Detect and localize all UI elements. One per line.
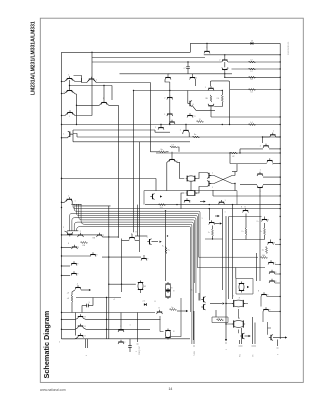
wire line y=62 right part	[228, 61, 280, 63]
wire Q15 out	[192, 105, 215, 110]
transistor Q29 rcol	[257, 187, 262, 189]
wire Q10 left lead	[77, 103, 103, 106]
wire pin stub 6	[277, 340, 279, 347]
wire line y=69	[232, 68, 281, 70]
resistor R12	[249, 61, 256, 63]
transistor Q23 sw lower	[208, 181, 210, 186]
wire Q8 out long	[96, 82, 150, 84]
wire line y=257.1	[102, 256, 141, 258]
wire vertical x=226	[225, 216, 227, 341]
svg-text:6: 6	[278, 354, 280, 355]
transistor Q56 pair	[165, 330, 170, 332]
transistor Q1	[204, 50, 209, 52]
wire Q17b base down	[210, 108, 212, 117]
resistor R1+ vertical	[212, 229, 214, 236]
svg-text:FREQ OUT: FREQ OUT	[139, 345, 141, 355]
wire bus line 1 long	[73, 204, 280, 208]
wire Q11 collector	[72, 113, 75, 116]
transistor Q28 rcol	[257, 173, 262, 175]
pin tick marks	[137, 343, 279, 348]
node rail dots batch	[61, 178, 62, 179]
wire Q18 base link	[70, 133, 73, 135]
wire sw cross	[209, 176, 235, 184]
transistor Q45	[268, 242, 273, 244]
transistor Q54 pair	[165, 289, 170, 291]
resistor R24	[221, 95, 223, 102]
transistor Q50	[78, 325, 83, 327]
wire Q10 right lead	[106, 103, 119, 106]
wire Q48t arrow out	[81, 289, 89, 291]
resistor R18	[249, 76, 256, 78]
wire line y=62 left part	[92, 61, 222, 63]
transistor OV1 core pair	[186, 176, 188, 182]
svg-text:4: 4	[86, 355, 88, 356]
resistor R1.4	[249, 124, 256, 126]
wire bus line 7	[74, 222, 193, 340]
svg-text:LM231A/LM231/LM331A/LM331: LM231A/LM231/LM331A/LM331	[30, 21, 36, 95]
wire left supply rail	[61, 52, 63, 339]
resistor R2+c box	[212, 317, 228, 323]
svg-text:THRS: THRS	[194, 350, 196, 356]
capacitor C2	[187, 62, 189, 66]
transistor Q11	[67, 112, 72, 114]
wire Q29 leads	[240, 183, 257, 185]
wire res row link	[233, 239, 265, 241]
wire line y=117 right	[211, 116, 280, 118]
transistor Q53	[118, 341, 123, 343]
transistor Q19b	[158, 127, 163, 129]
wire vertical x=133.5	[133, 91, 135, 233]
wire line y=284.2	[109, 283, 136, 285]
wire bus top line y=205.9	[75, 205, 111, 207]
wire bias line y=54.8	[204, 54, 280, 56]
transistor Qcomb top	[67, 198, 72, 200]
wire base bus y=85.5	[69, 80, 71, 89]
resistor R8b	[159, 151, 166, 153]
wire base vertical x=75.5	[75, 313, 77, 336]
wire pin stub pair left	[85, 339, 87, 348]
resistor R10k	[261, 257, 268, 259]
transistor Q24c	[219, 201, 224, 203]
transistor Q20 core A	[169, 159, 174, 161]
wire long line y=124.5	[62, 124, 281, 126]
diode D1 on top rail	[250, 42, 253, 45]
transistor Q52	[118, 329, 123, 331]
transistor Q60 output C	[242, 333, 244, 338]
transistor Q58a latch pair	[239, 283, 244, 285]
wire R24 links	[221, 91, 223, 96]
wire Q19 leads	[183, 132, 189, 137]
transistor Q44	[262, 219, 267, 221]
transistor Q63 out	[270, 335, 272, 340]
transistor Qfan at comb	[67, 233, 72, 235]
resistor R5a	[170, 309, 177, 311]
wire comp feed	[137, 205, 139, 236]
resistor R27	[170, 146, 177, 148]
transistor Q15 mid-right	[189, 101, 191, 106]
wire bus line 5	[72, 218, 196, 293]
wire line y=90.5 mid	[134, 90, 223, 92]
wire mid vertical x=169.8	[169, 82, 171, 125]
transistor Q2 stack upper	[222, 59, 227, 61]
transistor Q46	[268, 262, 273, 264]
wire peel2 drop	[235, 268, 237, 279]
svg-text:+8: +8	[67, 293, 69, 295]
transistor Q19 top core	[183, 129, 188, 131]
wire line y=77.3 right	[225, 76, 280, 78]
wire right rail hookups	[275, 245, 280, 284]
wire bus peel-off 2	[197, 267, 265, 269]
svg-text:5: 5	[226, 349, 228, 350]
wire right supply rail	[279, 43, 281, 339]
transistor Q36b	[141, 258, 146, 260]
transistor Q62	[263, 309, 268, 311]
transistor Q34	[72, 246, 77, 248]
page frame	[40, 18, 303, 382]
transistor Q10	[101, 102, 106, 104]
resistor R2+b	[264, 228, 266, 235]
wire bus top comb	[71, 203, 81, 205]
transistor Q3 stack lower	[222, 69, 227, 71]
resistor R42	[231, 152, 238, 154]
comparator box	[144, 191, 237, 205]
wire top edge right segment	[190, 42, 280, 44]
wire vertical x=92	[91, 52, 93, 115]
wire bus line 3	[70, 213, 199, 257]
transistor Q49	[78, 316, 83, 318]
resistor R9.8 on line	[159, 204, 166, 206]
transistor Q59 output B	[233, 320, 235, 327]
wire arrow feed mid	[218, 215, 220, 217]
wire left emitters	[62, 319, 78, 339]
wire Q20 base up	[171, 152, 173, 158]
wire line y=275.5	[62, 275, 71, 277]
transistor Q61	[261, 294, 266, 296]
wire bus line 6	[79, 204, 195, 283]
transistor Q47	[269, 271, 274, 273]
transistor Q57a	[203, 297, 205, 302]
wire mid feed y=178.5	[62, 178, 157, 180]
wire vertical x=139.5	[139, 142, 141, 252]
transistor Q25 rcol	[270, 134, 275, 136]
wire box bottom mid	[160, 298, 181, 337]
wire seg y=132.2	[154, 130, 156, 132]
wire Qcomb emitter to rail	[62, 199, 68, 202]
wire Q26 leads	[240, 148, 263, 150]
wire x=165.5 vertical	[165, 211, 167, 281]
svg-text:8: 8	[68, 243, 69, 245]
wire Q20 right lead	[174, 160, 185, 179]
wire long line y=204.6	[145, 204, 280, 206]
svg-text:10k: 10k	[262, 255, 265, 257]
wire line y=141.8	[73, 141, 190, 143]
transistor Q19c	[187, 115, 192, 117]
svg-text:1: 1	[225, 212, 226, 214]
wire top link y=297.5	[76, 297, 121, 299]
svg-text:www.national.com: www.national.com	[40, 388, 66, 392]
transistor Q24 in box	[152, 194, 154, 199]
wire long line y=137	[77, 136, 280, 138]
transistor Q13 mid	[167, 97, 172, 99]
wire bus line 2	[74, 204, 200, 300]
svg-text:2: 2	[59, 342, 60, 344]
wire oval link	[190, 181, 192, 190]
svg-text:2.2: 2.2	[143, 301, 146, 303]
transistor Q42 mid	[209, 222, 214, 224]
transistor Q32	[129, 237, 134, 239]
wire verticals bottom-mid	[198, 293, 200, 301]
transistor OV2 core pair	[186, 190, 188, 196]
wire right collectors	[84, 319, 161, 330]
svg-text:2: 2	[63, 227, 64, 229]
transistor Q30	[78, 234, 83, 236]
transistor Q6	[190, 77, 195, 79]
wire output stage	[226, 304, 248, 334]
wire bus line 4	[76, 204, 197, 267]
wire right group	[261, 297, 280, 335]
transistor Q14 mid	[167, 113, 172, 115]
wire ovals to switch	[195, 173, 207, 194]
resistor R2a	[266, 247, 268, 254]
svg-text:1: 1	[202, 218, 203, 220]
wire Q9 collector down	[71, 91, 76, 95]
wire sw outputs	[234, 172, 236, 191]
wire line y=73.8	[120, 73, 233, 75]
capacitor C3	[82, 305, 87, 307]
wire pin stub 3	[137, 313, 139, 343]
wire line y=312.5	[62, 312, 156, 314]
svg-text:1: 1	[75, 201, 76, 203]
box bias loop	[210, 81, 229, 125]
wire pin stubs vcc	[252, 317, 254, 344]
wire Q28 leads	[263, 176, 280, 178]
svg-text:8: 8	[241, 207, 242, 209]
wire line y=153 with R42	[156, 152, 280, 154]
wire latch arrow	[247, 286, 249, 288]
wire vertical x=150.5	[150, 83, 152, 153]
svg-text:1: 1	[130, 325, 131, 327]
wire corner x=73	[72, 130, 74, 142]
svg-text:DS005680-21: DS005680-21	[288, 41, 290, 55]
wire top step vertical	[189, 43, 191, 52]
wire row links	[83, 234, 97, 236]
wire arrow pin left	[186, 310, 188, 312]
wire Q8 leads	[82, 78, 97, 83]
resistor R14	[249, 89, 256, 91]
resistor R11	[197, 121, 204, 123]
wire pin stubs bottom	[239, 340, 241, 344]
wire Q5-Q6 emitter bus	[165, 80, 196, 87]
transistor Q41 oval	[165, 283, 170, 285]
transistor Q48t	[75, 287, 80, 289]
transistor Q48r	[269, 280, 274, 282]
wire Q20 left lead down	[167, 160, 170, 191]
transistor Q38 comparator in	[149, 239, 151, 244]
wire verticals lower-left	[108, 206, 110, 339]
transistor Q24b	[184, 200, 189, 202]
wire Q18 emitter to rail	[62, 137, 68, 139]
wire line y=130	[73, 129, 155, 131]
transistor Q7 left mirror A	[67, 78, 72, 80]
svg-text:Schematic Diagram: Schematic Diagram	[42, 310, 51, 378]
wire Q10 base up	[103, 86, 105, 101]
transistor Q55	[157, 311, 162, 313]
resistor R17	[249, 68, 256, 70]
transistor Q17b in box	[208, 105, 213, 107]
wire bus line 9	[77, 227, 191, 313]
transistor Q27 rcol	[267, 160, 272, 162]
svg-text:+1: +1	[113, 299, 115, 301]
wire right line y=196	[213, 195, 280, 197]
wire line y=89.5 right	[230, 89, 280, 91]
wire pair out arrow	[210, 303, 222, 305]
wire Q7 collector loop	[71, 76, 81, 82]
box latch	[236, 279, 253, 295]
wire vertical x=118.4	[117, 105, 119, 236]
transistor Q58 output A	[233, 300, 235, 307]
wire verticals bottom-left	[106, 298, 108, 339]
resistor R+8	[71, 295, 73, 302]
wire Q11 emitter to rail	[62, 113, 69, 116]
wire Q32 leads	[122, 240, 130, 242]
wire R1+ bottom link	[205, 238, 223, 240]
transistor Q9	[67, 90, 72, 92]
resistor R8a on line	[193, 136, 200, 138]
wire verticals mid-right	[222, 209, 224, 290]
transistor Q17t in box	[208, 87, 213, 89]
capacitor C4	[128, 345, 132, 347]
transistor Q40 oval	[138, 282, 143, 284]
wire Q25 leads	[263, 136, 270, 138]
wire Qcomb feed	[71, 199, 72, 204]
resistor R9+	[165, 247, 167, 254]
transistor Q26 rcol	[263, 145, 268, 147]
wire line y=57.5	[92, 57, 205, 59]
resistor R2+a	[245, 228, 247, 235]
transistor Q5	[165, 77, 170, 79]
wire bus bottom comb	[67, 230, 78, 232]
transistor Q36	[71, 263, 76, 265]
transistor Q18	[69, 132, 71, 137]
resistor RKB	[81, 242, 88, 244]
wire line y=266	[62, 265, 71, 267]
svg-text:3: 3	[136, 351, 138, 352]
wire bus peel-off 1	[199, 256, 258, 258]
svg-text:8: 8	[155, 301, 156, 303]
wire Q7 emitter to rail	[62, 79, 68, 82]
svg-text:8: 8	[136, 232, 137, 234]
svg-text:1: 1	[147, 237, 148, 239]
transistor Q8 left mirror B	[89, 78, 94, 80]
wire arrow in box	[204, 200, 206, 202]
wire row line y=234	[62, 234, 78, 236]
resistor R38	[210, 95, 212, 102]
wire bottom ground rail	[62, 338, 191, 340]
wire line y=256	[62, 255, 91, 257]
transistor Q57b	[203, 304, 205, 309]
transistor Q43	[243, 210, 248, 212]
transistor Q37	[71, 273, 76, 275]
transistor Q31	[97, 234, 102, 236]
transistor Q22 sw upper	[208, 173, 210, 178]
diode D2	[144, 303, 147, 306]
svg-text:14: 14	[169, 387, 173, 391]
wire bus line 8	[81, 204, 192, 344]
wire Q27 leads	[230, 163, 267, 165]
transistor Q12 on line	[169, 121, 174, 123]
svg-text:8: 8	[233, 296, 234, 298]
wire line y=247.5	[62, 247, 72, 249]
wire Q9 emitter to rail	[62, 91, 68, 94]
wire top edge left segment	[62, 51, 191, 53]
transistor Q51	[78, 335, 83, 337]
transistor Q35	[90, 254, 95, 256]
svg-text:8: 8	[258, 291, 259, 293]
